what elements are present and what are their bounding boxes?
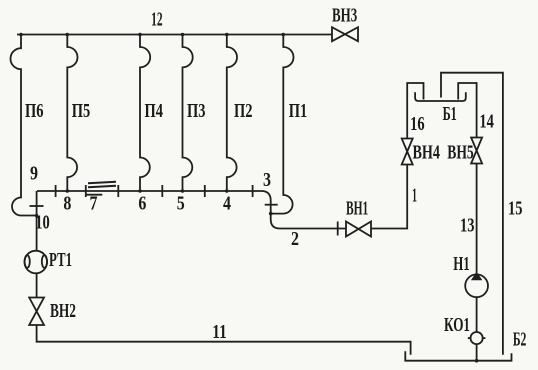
svg-text:ВН4: ВН4 (412, 142, 440, 164)
svg-text:ВН1: ВН1 (346, 198, 368, 220)
svg-text:11: 11 (212, 321, 227, 343)
svg-text:П6: П6 (25, 100, 44, 122)
svg-text:КО1: КО1 (444, 314, 470, 336)
svg-text:П1: П1 (289, 100, 308, 122)
svg-text:ВН3: ВН3 (332, 4, 357, 26)
svg-text:Б2: Б2 (513, 329, 527, 351)
svg-text:16: 16 (410, 113, 425, 135)
svg-text:14: 14 (479, 111, 494, 133)
svg-text:10: 10 (35, 212, 50, 234)
svg-text:4: 4 (223, 193, 231, 215)
svg-text:П4: П4 (145, 100, 164, 122)
svg-text:7: 7 (90, 193, 98, 215)
svg-text:15: 15 (508, 198, 523, 220)
svg-text:Н1: Н1 (453, 253, 470, 275)
svg-text:П2: П2 (234, 100, 253, 122)
svg-text:1: 1 (412, 185, 417, 207)
svg-text:П3: П3 (187, 100, 206, 122)
svg-text:6: 6 (138, 193, 146, 215)
svg-text:Б1: Б1 (443, 103, 457, 125)
svg-text:РТ1: РТ1 (49, 249, 72, 271)
svg-text:2: 2 (291, 228, 299, 250)
svg-text:12: 12 (151, 9, 163, 31)
svg-text:9: 9 (30, 163, 38, 185)
svg-text:ВН2: ВН2 (50, 300, 76, 322)
svg-text:8: 8 (63, 193, 71, 215)
svg-text:3: 3 (263, 169, 271, 191)
svg-text:П5: П5 (72, 100, 91, 122)
svg-text:13: 13 (460, 215, 475, 237)
svg-text:5: 5 (177, 193, 185, 215)
svg-text:ВН5: ВН5 (447, 142, 474, 164)
